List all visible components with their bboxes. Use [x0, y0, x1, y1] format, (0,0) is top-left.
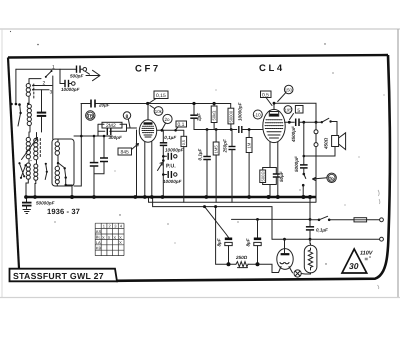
svg-text:10000pF: 10000pF	[165, 148, 184, 153]
svg-text:50000: 50000	[229, 110, 234, 122]
svg-text:-10: -10	[254, 113, 261, 118]
svg-text:1: 1	[52, 65, 55, 71]
svg-text:0,5: 0,5	[182, 140, 186, 145]
svg-text:0,1µF: 0,1µF	[198, 148, 203, 160]
svg-text:X: X	[119, 235, 122, 240]
svg-text:0,15: 0,15	[156, 93, 166, 99]
svg-text:1M5: 1M5	[214, 145, 219, 154]
svg-text:CF7: CF7	[135, 64, 161, 75]
svg-text:CL4: CL4	[259, 63, 285, 74]
svg-text:LA: LA	[96, 240, 101, 245]
svg-text:110V: 110V	[360, 251, 374, 257]
svg-text:30: 30	[349, 261, 359, 271]
svg-text:To: To	[329, 176, 334, 181]
svg-text:8µF: 8µF	[246, 238, 251, 246]
svg-text:1M: 1M	[247, 142, 252, 148]
svg-text:450Ω: 450Ω	[324, 137, 329, 150]
svg-text:150: 150	[285, 88, 293, 93]
svg-text:50000pF: 50000pF	[36, 201, 55, 206]
svg-text:2o: 2o	[165, 117, 171, 122]
svg-text:300pF: 300pF	[109, 135, 122, 140]
svg-text:10000pF: 10000pF	[163, 179, 182, 184]
svg-text:2: 2	[43, 81, 46, 87]
svg-text:5000pF: 5000pF	[294, 156, 299, 172]
svg-text:50kΩ: 50kΩ	[212, 111, 217, 121]
svg-text:X: X	[113, 235, 116, 240]
svg-text:20µF: 20µF	[98, 103, 110, 108]
svg-text:KB: KB	[96, 245, 102, 250]
svg-text:TB: TB	[87, 114, 94, 120]
svg-text:X: X	[102, 235, 105, 240]
svg-text:X: X	[108, 235, 111, 240]
svg-text:X: X	[119, 240, 122, 245]
svg-text:5: 5	[297, 108, 300, 114]
svg-text:4500pF: 4500pF	[291, 126, 296, 143]
svg-text:STASSFURT GWL 27: STASSFURT GWL 27	[13, 271, 104, 281]
svg-text:500pF: 500pF	[70, 74, 83, 79]
svg-text:10000pF: 10000pF	[61, 87, 80, 92]
svg-text:3: 3	[50, 90, 53, 96]
svg-text:250pF: 250pF	[223, 139, 228, 153]
svg-text:P.U.: P.U.	[166, 164, 176, 170]
svg-text:500Ω: 500Ω	[260, 171, 265, 181]
svg-text:AS: AS	[96, 229, 102, 234]
svg-text:250Ω: 250Ω	[235, 255, 248, 260]
svg-text:845: 845	[121, 150, 130, 156]
svg-text:0,1µF: 0,1µF	[164, 135, 176, 140]
svg-text:50µF: 50µF	[279, 171, 284, 182]
svg-text:=: =	[365, 257, 369, 263]
svg-text:2µF: 2µF	[197, 113, 202, 122]
svg-text:8µF: 8µF	[217, 238, 222, 246]
svg-text:BL: BL	[96, 235, 102, 240]
svg-text:0,1µF: 0,1µF	[316, 228, 328, 233]
svg-text:10k: 10k	[155, 109, 163, 114]
svg-text:195: 195	[285, 108, 293, 113]
svg-text:1936 - 37: 1936 - 37	[47, 207, 80, 216]
svg-text:10000pF: 10000pF	[238, 102, 243, 121]
